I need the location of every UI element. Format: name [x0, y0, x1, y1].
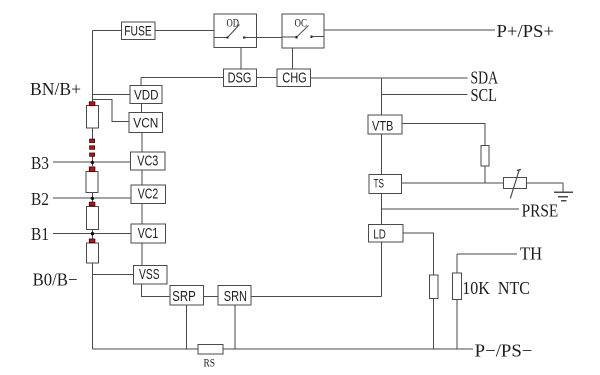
- cell B2 body: [86, 207, 98, 230]
- wire VC1 to VSS: [141, 243, 143, 266]
- wire SRN bottom: [234, 305, 236, 349]
- svg-text:OC: OC: [295, 16, 308, 30]
- switch OD left contact dot: [226, 36, 228, 38]
- svg-text:SCL: SCL: [471, 85, 498, 105]
- wire SCL branch: [382, 94, 468, 96]
- wire OD bottom to DSG: [240, 48, 242, 70]
- svg-text:BN/B+: BN/B+: [30, 79, 81, 99]
- svg-text:B2: B2: [31, 189, 49, 209]
- svg-text:SRN: SRN: [224, 288, 247, 305]
- resistor RS: [198, 345, 223, 354]
- wire corner to FUSE: [93, 30, 122, 32]
- wire NTC top: [456, 254, 458, 273]
- svg-text:P+/PS+: P+/PS+: [497, 21, 555, 41]
- switch OC left contact dot: [295, 36, 297, 38]
- pin VSS box: [133, 266, 167, 284]
- wire LD right branch: [403, 233, 434, 275]
- varistor PRSE element: [504, 178, 527, 189]
- svg-text:10K NTC: 10K NTC: [462, 278, 530, 298]
- cell B4 positive red cap: [89, 102, 95, 106]
- wire VDD left: [93, 93, 131, 95]
- cell B3 body: [86, 171, 98, 192]
- wire CHG to SDA: [311, 77, 468, 79]
- wire PRSE: [382, 208, 520, 210]
- switch OD right contact dot: [243, 36, 245, 38]
- resistor R2 (LD pull): [429, 275, 438, 299]
- switch OD box: [214, 14, 257, 48]
- svg-text:VSS: VSS: [139, 267, 160, 283]
- cell B1 positive red cap: [89, 239, 95, 242]
- wire B3: [53, 161, 131, 163]
- wire TH: [457, 253, 517, 255]
- resistor RT 10K NTC: [453, 273, 462, 300]
- wire SRN right to LD branch: [251, 296, 381, 298]
- pin VC3 box: [131, 152, 166, 170]
- pin VC2 box: [131, 185, 166, 204]
- switch OC right contact bar: [312, 36, 325, 38]
- switch OD right contact bar: [244, 37, 257, 39]
- pin VCN box: [129, 113, 162, 133]
- wire NTC bottom: [456, 300, 458, 350]
- fuse F1 box: [122, 22, 156, 40]
- node B3 junction dot: [91, 161, 94, 164]
- wire FUSE to OD: [155, 30, 214, 32]
- wire OD to OC: [257, 37, 283, 39]
- wire battery bottom vertical: [92, 263, 94, 349]
- wire VSS bottom to SRP: [142, 284, 171, 297]
- svg-text:VCN: VCN: [133, 116, 158, 131]
- wire SRP to SRN: [204, 296, 218, 298]
- wire DSG to CHG: [257, 77, 277, 79]
- red dash 1: [90, 139, 95, 142]
- pin SRN box: [218, 286, 251, 305]
- svg-text:RS: RS: [204, 356, 216, 370]
- pin SRP box: [170, 286, 204, 305]
- switch OC lever: [297, 26, 309, 38]
- cell B4 body: [86, 106, 98, 129]
- wire cell B2 bottom to node B1: [92, 229, 94, 239]
- svg-text:B1: B1: [31, 224, 49, 244]
- wire TS right: [402, 182, 504, 184]
- svg-text:P−/PS−: P−/PS−: [475, 341, 533, 361]
- pin TS box: [369, 174, 402, 193]
- red dash 3: [90, 153, 95, 156]
- ground G1 bar2: [558, 196, 568, 198]
- wire junction down to VTB: [381, 78, 383, 115]
- pin VDD box: [130, 86, 162, 104]
- pin CHG box: [277, 69, 311, 87]
- svg-text:TH: TH: [520, 244, 542, 264]
- svg-text:FUSE: FUSE: [124, 24, 152, 39]
- switch OD left contact bar: [214, 37, 228, 39]
- wire varistor to ground: [527, 183, 563, 193]
- ground G1 bar3: [561, 200, 566, 202]
- varistor diagonal stroke: [510, 169, 519, 198]
- pin VC1 box: [131, 224, 166, 243]
- svg-text:LD: LD: [373, 227, 386, 242]
- svg-text:B3: B3: [31, 153, 49, 173]
- wire bottom rail left: [93, 348, 199, 350]
- resistor R1 (VTB divider): [481, 145, 489, 166]
- wire BN/B+ top vertical: [92, 31, 94, 103]
- cell B1 body: [86, 243, 98, 263]
- wire bottom rail right: [223, 348, 473, 350]
- pin VTB box: [368, 115, 402, 134]
- varistor arrow tick: [517, 169, 521, 170]
- switch OD lever: [228, 25, 240, 38]
- wire LD bottom vertical: [381, 242, 383, 297]
- switch OC box: [282, 14, 324, 48]
- switch OC right contact dot: [310, 36, 312, 38]
- svg-text:SRP: SRP: [172, 288, 195, 305]
- wire TS bottom to LD: [381, 193, 383, 224]
- wire VTB to TS: [381, 134, 383, 175]
- wire R2 bottom: [433, 299, 435, 350]
- wire VDD to VCN: [141, 104, 143, 113]
- node B2 junction dot: [91, 197, 94, 200]
- switch OC left contact bar: [282, 36, 297, 38]
- svg-text:VTB: VTB: [372, 117, 393, 133]
- pin DSG box: [223, 69, 256, 87]
- svg-text:VC3: VC3: [137, 154, 158, 170]
- wire B2: [53, 197, 131, 199]
- cell B2 positive red cap: [89, 202, 95, 206]
- svg-text:VDD: VDD: [134, 88, 159, 103]
- wire VCN branch: [93, 100, 130, 122]
- wire cell B4 bottom to dashes: [92, 128, 94, 140]
- wire OC to P+/PS+: [324, 29, 495, 31]
- wire VC2 to VC1: [141, 203, 143, 224]
- wire B1: [53, 232, 131, 234]
- wire dashes to node B3: [92, 156, 94, 166]
- wire VCN to VC3: [141, 133, 143, 153]
- svg-text:VC1: VC1: [138, 226, 159, 242]
- wire cell B3 bottom to node B2: [92, 193, 94, 203]
- wire OC bottom to CHG: [292, 48, 294, 69]
- svg-text:TS: TS: [373, 176, 384, 190]
- svg-text:OD: OD: [227, 16, 240, 30]
- wire VTB right branch: [401, 123, 485, 145]
- svg-text:CHG: CHG: [282, 70, 307, 87]
- svg-text:PRSE: PRSE: [522, 201, 559, 221]
- cell B3 positive red cap: [89, 167, 95, 172]
- svg-text:DSG: DSG: [228, 70, 252, 87]
- svg-text:VC2: VC2: [138, 186, 159, 202]
- svg-text:B0/B−: B0/B−: [33, 270, 78, 290]
- wire VC3 to VC2: [141, 170, 143, 185]
- wire corner down to VDD top: [140, 78, 142, 86]
- wire B0: [93, 274, 134, 276]
- wire SRP bottom: [186, 305, 188, 349]
- wire DSG left: [141, 77, 223, 79]
- ground G1 bar1: [554, 191, 573, 193]
- wire R1 bottom: [484, 166, 486, 183]
- red dash 2: [90, 146, 95, 150]
- pin LD box: [369, 225, 404, 242]
- node B1 junction dot: [91, 232, 94, 235]
